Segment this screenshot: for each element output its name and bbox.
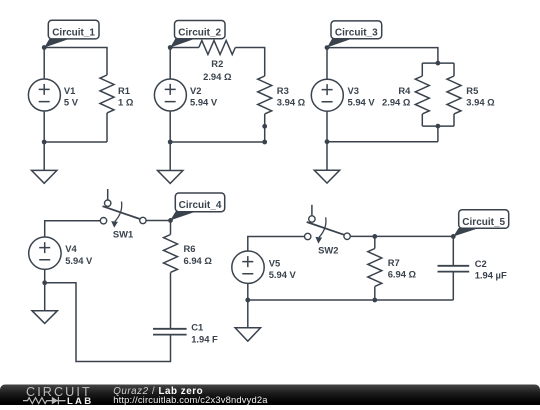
svg-text:C2: C2 <box>475 258 487 269</box>
wire: V1 top lead <box>43 48 45 80</box>
node: Circuit_1 top junction <box>42 45 47 50</box>
node: R7 top junction <box>372 234 377 239</box>
svg-text:R4: R4 <box>398 85 411 96</box>
voltage source V2 <box>154 79 186 142</box>
node: R7 bottom junction <box>372 298 377 303</box>
voltage source V5 <box>232 251 264 300</box>
svg-text:5.94 V: 5.94 V <box>65 255 93 266</box>
node: R3 bottom terminal <box>262 124 267 129</box>
switch SW1 <box>100 189 146 228</box>
node: Circuit_5 top junction at C2 <box>451 234 456 239</box>
svg-text:Circuit_5: Circuit_5 <box>462 217 505 228</box>
wire: Circuit_1 bottom net <box>44 141 107 143</box>
svg-text:1.94 F: 1.94 F <box>191 333 218 344</box>
node label callout Circuit_4 <box>170 193 224 220</box>
voltage source V1 <box>28 79 60 142</box>
node: Circuit_2 top junction <box>168 45 173 50</box>
resistor R1 <box>100 75 114 113</box>
svg-text:1.94 µF: 1.94 µF <box>475 270 507 281</box>
node label callout Circuit_5 <box>453 210 508 237</box>
svg-text:Circuit_1: Circuit_1 <box>52 27 95 38</box>
resistor R4 <box>415 76 429 114</box>
ground: Circuit_1 <box>32 142 57 183</box>
svg-text:5.94 V: 5.94 V <box>348 97 376 108</box>
ground: Circuit_3 <box>314 142 339 183</box>
wire: R1 bottom lead <box>106 113 108 142</box>
node: Circuit_3 top junction <box>325 45 330 50</box>
node label callout Circuit_1 <box>44 20 99 47</box>
node label callout Circuit_3 <box>327 21 382 48</box>
svg-text:V1: V1 <box>64 85 75 96</box>
resistor R7 <box>374 236 376 248</box>
svg-text:6.94 Ω: 6.94 Ω <box>184 255 213 266</box>
node: parallel bottom junction <box>436 124 441 129</box>
voltage source V3 <box>311 79 343 142</box>
wire: R6 bottom to C1 top <box>170 273 172 329</box>
wire: parallel top bar <box>422 63 454 76</box>
wire: V3 top lead <box>326 48 328 80</box>
wire: Circuit_3 bottom net <box>327 141 438 143</box>
svg-text:LAB: LAB <box>67 396 93 405</box>
capacitor C1 <box>153 329 187 335</box>
resistor R5 <box>447 76 461 114</box>
wire: R3 node to bottom net <box>264 126 266 142</box>
wire: Circuit_3 top net <box>327 48 438 64</box>
svg-text:2.94 Ω: 2.94 Ω <box>382 97 411 108</box>
resistor R3 <box>258 76 272 114</box>
svg-text:3.94 Ω: 3.94 Ω <box>277 97 306 108</box>
svg-text:http://circuitlab.com/c2x3v8nd: http://circuitlab.com/c2x3v8ndvyd2a <box>113 394 268 405</box>
wire: R2 right lead to R3 top <box>235 48 264 77</box>
svg-text:R2: R2 <box>211 58 223 69</box>
svg-text:Circuit_2: Circuit_2 <box>178 28 221 39</box>
wire: C2 bottom lead <box>452 272 454 300</box>
svg-text:5.94 V: 5.94 V <box>269 269 297 280</box>
node: Circuit_2 bottom right corner <box>262 140 267 145</box>
node: Circuit_2 bottom junction <box>168 140 173 145</box>
svg-text:V3: V3 <box>348 85 359 96</box>
resistor R2 <box>199 41 235 55</box>
svg-text:1 Ω: 1 Ω <box>118 97 134 108</box>
svg-text:C1: C1 <box>191 322 203 333</box>
capacitor C2 <box>438 266 470 272</box>
resistor R6 <box>170 220 172 234</box>
wire: R7 bottom lead <box>374 287 376 301</box>
svg-text:R1: R1 <box>118 85 130 96</box>
svg-text:V4: V4 <box>65 243 77 254</box>
wire: Circuit_5 bottom net <box>248 299 453 301</box>
wire: C2 top lead <box>452 236 454 265</box>
node label callout Circuit_2 <box>170 21 225 48</box>
svg-text:2.94 Ω: 2.94 Ω <box>203 71 232 82</box>
wire: R3 bottom lead <box>264 114 266 126</box>
ground: Circuit_4 <box>32 283 57 324</box>
logo resistor-diode symbol <box>23 397 66 405</box>
wire: parallel bottom bar <box>422 114 454 126</box>
switch SW2 <box>305 205 351 244</box>
label V1 value <box>64 58 507 344</box>
svg-text:R5: R5 <box>466 85 478 96</box>
svg-text:Circuit_3: Circuit_3 <box>335 28 378 39</box>
voltage source V4 <box>29 237 61 283</box>
svg-text:6.94 Ω: 6.94 Ω <box>388 269 417 280</box>
wire: V5 top lead to switch SW2 <box>248 237 304 252</box>
wire: Circuit_2 top net node to R2 <box>170 47 199 49</box>
svg-text:SW2: SW2 <box>318 244 338 255</box>
wire: V2 top lead <box>169 48 171 80</box>
svg-text:V2: V2 <box>190 85 201 96</box>
svg-text:SW1: SW1 <box>113 229 133 240</box>
wire: Circuit_1 top net from node to R1 top <box>44 48 107 76</box>
node: Circuit_1 bottom junction <box>42 140 47 145</box>
node: Circuit_4 top junction <box>168 218 173 223</box>
svg-text:V5: V5 <box>269 258 280 269</box>
wire: SW1 common to Circuit_4 node <box>146 220 170 222</box>
svg-text:Circuit_4: Circuit_4 <box>179 200 222 211</box>
ground: Circuit_2 <box>158 142 183 183</box>
svg-text:R3: R3 <box>277 85 289 96</box>
ground: Circuit_5 <box>235 300 260 341</box>
svg-text:5.94 V: 5.94 V <box>190 97 218 108</box>
svg-text:R7: R7 <box>388 257 400 268</box>
node: V4 bottom junction <box>42 280 47 285</box>
node: parallel top junction <box>436 61 441 66</box>
svg-text:5 V: 5 V <box>64 97 79 108</box>
svg-text:R6: R6 <box>184 243 196 254</box>
wire: parallel junction to bottom net <box>437 126 439 142</box>
wire: SW2 common to C2 node <box>351 235 453 237</box>
node: Circuit_3 bottom junction <box>325 139 330 144</box>
node: V5 bottom junction <box>245 298 250 303</box>
wire: C1 bottom loop back to V4 <box>45 283 171 362</box>
svg-text:3.94 Ω: 3.94 Ω <box>466 97 495 108</box>
wire: Circuit_2 bottom net <box>170 141 265 143</box>
wire: V4 top lead to switch SW1 <box>45 221 101 237</box>
